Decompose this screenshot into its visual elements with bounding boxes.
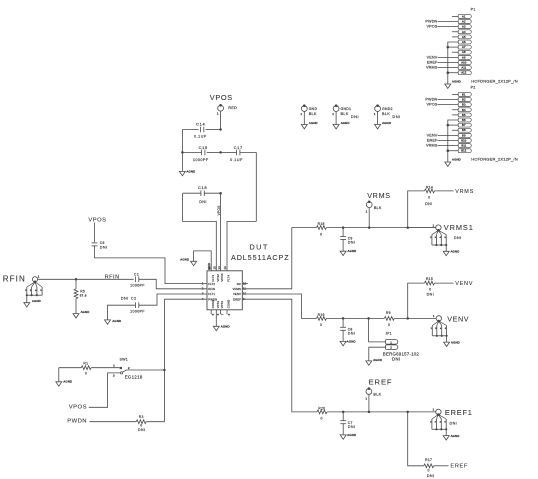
wire C17 loop to chip pin 13 — [227, 221, 256, 270]
node junction VRMS branch — [406, 226, 409, 229]
svg-text:PWDN: PWDN — [67, 418, 87, 424]
svg-text:EREF1: EREF1 — [445, 408, 473, 417]
pin 13 FLT4 (top) — [223, 266, 230, 282]
svg-text:14: 14 — [217, 266, 221, 270]
svg-text:DNI: DNI — [138, 428, 146, 432]
svg-text:0: 0 — [320, 323, 322, 327]
node VPOS label (mid-left) — [88, 218, 106, 224]
test point GND1 (BLK) — [332, 104, 359, 124]
pin 15 VPS2 (top) — [213, 266, 220, 282]
ground AGND below C2 — [105, 319, 122, 324]
svg-text:R14: R14 — [426, 185, 433, 189]
node EREF net label (to header) — [450, 464, 468, 470]
svg-text:FLT4: FLT4 — [227, 275, 231, 282]
svg-text:VPOS: VPOS — [210, 93, 233, 102]
node RFIN label (input) — [3, 275, 26, 284]
wire stub pin B8 — [452, 129, 458, 131]
svg-text:DUT: DUT — [249, 243, 268, 252]
svg-text:AGND: AGND — [382, 121, 391, 125]
wire ground bus P1 — [447, 42, 459, 84]
svg-text:COM1: COM1 — [211, 299, 215, 308]
svg-text:AGND: AGND — [347, 339, 356, 343]
svg-text:VENV: VENV — [427, 133, 438, 137]
svg-text:P1: P1 — [471, 8, 476, 12]
pin 11 VRMS (right) — [233, 287, 247, 292]
wire VPOS label to C6 — [94, 223, 96, 243]
wire SW1 pin 3 to VPOS label — [89, 373, 121, 407]
svg-text:R20: R20 — [318, 406, 325, 410]
wire chip pin 11 VRMS up column — [242, 228, 316, 289]
svg-text:NC: NC — [237, 282, 241, 286]
wire stub pin B5 — [452, 114, 458, 116]
wire ground bus P2 — [447, 120, 459, 162]
wire VRMS branch up to R14 — [408, 191, 425, 228]
svg-text:AGND: AGND — [112, 319, 121, 323]
svg-text:B9: B9 — [462, 133, 466, 137]
svg-text:A7: A7 — [462, 45, 466, 49]
wire C14 left leg down to C15 node — [181, 130, 183, 153]
svg-text:A9: A9 — [462, 55, 466, 59]
ground AGND below GND1 — [333, 121, 349, 129]
svg-text:1: 1 — [433, 314, 435, 318]
svg-text:DNI: DNI — [392, 356, 401, 361]
svg-text:DNI: DNI — [348, 241, 356, 245]
svg-text:C2: C2 — [131, 297, 136, 301]
svg-text:BLK: BLK — [374, 206, 382, 210]
ground AGND below GND — [301, 121, 317, 129]
svg-text:13: 13 — [223, 266, 227, 270]
capacitor C1 1000PF — [130, 273, 145, 288]
svg-text:RFIN: RFIN — [208, 287, 215, 291]
svg-text:0: 0 — [429, 287, 431, 291]
wire C18 left loop to chip pin 15 — [183, 193, 217, 271]
svg-text:B6: B6 — [462, 118, 466, 122]
pin 14 VPOS (top) — [217, 266, 224, 282]
pin 10 VENV (right) — [233, 292, 247, 297]
svg-text:1: 1 — [390, 340, 392, 344]
svg-text:VRMS: VRMS — [455, 189, 474, 195]
node VPOS label (switch) — [69, 405, 87, 411]
svg-text:16: 16 — [207, 266, 211, 270]
svg-text:AGND: AGND — [81, 310, 90, 314]
svg-text:C15: C15 — [199, 145, 208, 150]
svg-text:8: 8 — [227, 313, 231, 315]
svg-text:A1: A1 — [462, 14, 466, 18]
test point GND2 (BLK) — [374, 104, 401, 124]
svg-text:1: 1 — [332, 112, 334, 116]
svg-text:AGND: AGND — [347, 433, 356, 437]
svg-text:0: 0 — [320, 232, 322, 236]
resistor R5 57.6 — [74, 279, 87, 313]
wire C6 to chip pin 1 FLT2 — [95, 246, 208, 284]
svg-text:3: 3 — [113, 374, 115, 378]
resistor R1 0 — [59, 361, 120, 375]
svg-text:A10: A10 — [461, 60, 466, 64]
node junction EREF testpoint — [368, 411, 371, 414]
test point GND (BLK) — [300, 104, 317, 124]
svg-text:AGND: AGND — [187, 169, 196, 173]
wire SW1 pin 2 to PWDN column — [126, 369, 164, 371]
resistor R18 0 — [316, 222, 435, 236]
svg-text:B7: B7 — [462, 123, 466, 127]
svg-text:DNI: DNI — [427, 474, 435, 478]
svg-text:VENV: VENV — [233, 292, 241, 296]
connector EREF1 SMA — [430, 408, 459, 440]
svg-text:GND1: GND1 — [341, 107, 352, 111]
svg-text:AGND: AGND — [180, 257, 189, 261]
ground AGND below R5 — [73, 310, 89, 318]
svg-text:VRMS: VRMS — [233, 287, 242, 291]
svg-text:1: 1 — [366, 210, 368, 214]
node PWDN label (P1) — [425, 19, 458, 23]
wire C2 left to ground — [108, 305, 136, 320]
svg-text:JP1: JP1 — [385, 332, 391, 336]
svg-text:HCFDNGER_2X12P_/N: HCFDNGER_2X12P_/N — [471, 78, 518, 83]
svg-text:57.6: 57.6 — [80, 293, 87, 297]
test point VRMS (BLK) — [366, 200, 382, 227]
ground AGND below JP1 — [366, 358, 382, 365]
svg-text:VENV: VENV — [427, 55, 438, 59]
wire EREF branch down to R17 — [408, 412, 424, 466]
svg-text:R17: R17 — [425, 458, 432, 462]
node junction EREF branch — [406, 411, 409, 414]
footprint label P1 — [471, 78, 518, 83]
node PWDN label (P2) — [425, 97, 458, 101]
svg-text:B2: B2 — [462, 98, 466, 102]
svg-text:B8: B8 — [462, 128, 466, 132]
svg-text:DNI: DNI — [348, 332, 356, 336]
svg-text:EREF: EREF — [450, 464, 468, 470]
svg-text:AGND: AGND — [373, 358, 382, 362]
svg-text:B10: B10 — [461, 138, 466, 142]
capacitor C7 DNI (EREF) — [340, 412, 355, 435]
svg-text:DNI: DNI — [121, 296, 129, 301]
pin 4 PWDN (left) — [202, 297, 218, 302]
svg-text:1: 1 — [433, 408, 435, 412]
ground AGND below GND2 — [375, 121, 391, 129]
svg-text:RFIN: RFIN — [105, 274, 120, 280]
svg-text:1: 1 — [113, 364, 115, 368]
wire chip pin 10 VENV to row — [242, 294, 316, 318]
connector VRMS1 SMA — [408, 223, 462, 255]
svg-text:0: 0 — [388, 323, 390, 327]
svg-text:R3: R3 — [139, 415, 144, 419]
pin 5 COM1 (bottom) — [211, 299, 215, 315]
svg-text:1: 1 — [38, 275, 40, 279]
svg-text:BLK: BLK — [309, 112, 317, 116]
pin 12 NC (right) — [237, 281, 247, 286]
svg-text:1000PF: 1000PF — [193, 158, 209, 162]
svg-text:AGND: AGND — [32, 299, 41, 303]
capacitor C9 DNI (VRMS) — [340, 228, 355, 252]
svg-text:B4: B4 — [462, 108, 466, 112]
node PWDN label — [67, 418, 87, 424]
svg-text:HCFDNGER_2X12P_/N: HCFDNGER_2X12P_/N — [471, 156, 518, 161]
capacitor C15 1000PF — [182, 145, 220, 162]
svg-text:FLT3: FLT3 — [211, 275, 215, 282]
capacitor C18 DNI — [183, 185, 221, 204]
svg-text:VRMS: VRMS — [367, 191, 391, 200]
node junction C15 left — [181, 151, 184, 154]
footprint label P2 — [471, 156, 518, 161]
ground AGND below C7 — [340, 433, 356, 439]
wire stub pin A8 — [452, 51, 458, 53]
svg-text:DNI: DNI — [427, 293, 435, 297]
svg-text:PWDN: PWDN — [425, 19, 437, 23]
svg-text:EREF: EREF — [427, 138, 438, 142]
svg-text:A5: A5 — [462, 35, 466, 39]
svg-text:1000PF: 1000PF — [130, 309, 145, 313]
svg-text:A3: A3 — [462, 25, 466, 29]
svg-text:DNI: DNI — [199, 200, 207, 204]
wire VENV branch up to R15 — [408, 283, 425, 318]
node VRMS label (P1) — [426, 66, 458, 70]
svg-text:C1: C1 — [134, 273, 139, 277]
capacitor C17 0.1UF — [221, 145, 257, 162]
node junction VRMS testpoint — [368, 226, 371, 229]
svg-text:0: 0 — [427, 469, 429, 473]
svg-text:DNI: DNI — [425, 202, 433, 206]
svg-text:FLT1: FLT1 — [208, 292, 215, 296]
wire stub pin A5 — [452, 36, 458, 38]
ground AGND below C15 — [179, 152, 195, 175]
svg-text:1: 1 — [374, 112, 376, 116]
jumper JP1 BERG69157-102 DNI — [383, 332, 420, 362]
svg-text:ADL5511ACPZ: ADL5511ACPZ — [231, 253, 290, 262]
svg-text:AGND: AGND — [348, 249, 357, 253]
svg-text:1: 1 — [217, 111, 219, 115]
node VRMS label (testpoint) — [367, 191, 391, 200]
switch SW1 EG1218 — [113, 358, 143, 380]
svg-text:BLK: BLK — [341, 112, 349, 116]
svg-text:AGND: AGND — [452, 79, 461, 83]
wire C1 to chip pin 2 RFIN — [139, 279, 207, 289]
svg-text:GND: GND — [309, 107, 318, 111]
connector P2 header — [458, 86, 475, 153]
svg-text:BERG69157-102: BERG69157-102 — [383, 352, 420, 357]
pin 16 FLT3 (top) — [207, 266, 214, 282]
node VRMS label (P2) — [426, 144, 458, 148]
svg-text:0: 0 — [428, 195, 430, 199]
svg-text:R18: R18 — [318, 222, 325, 226]
capacitor C14 0.1UF — [182, 122, 220, 139]
svg-text:C17: C17 — [234, 145, 243, 150]
wire chip pin 4 PWDN down column — [164, 299, 207, 422]
wire JP1 pin 2 to ground — [369, 347, 386, 361]
capacitor C6 DNI — [92, 241, 108, 249]
svg-text:RFIN: RFIN — [3, 275, 26, 284]
test point VPOS (RED) — [217, 104, 237, 115]
svg-text:R9: R9 — [386, 311, 391, 315]
svg-text:A6: A6 — [462, 40, 466, 44]
pin 8 COM2 (bottom) — [227, 299, 231, 315]
connector VENV SMA — [431, 314, 460, 346]
svg-text:VPOS: VPOS — [426, 25, 437, 29]
svg-text:VRMS1: VRMS1 — [444, 223, 474, 232]
node junction C8 / VENV row — [342, 317, 345, 320]
svg-text:DNI: DNI — [450, 421, 458, 425]
svg-text:AGND: AGND — [452, 157, 461, 161]
connector RFIN SMA J1 — [24, 275, 43, 308]
svg-text:B1: B1 — [462, 92, 466, 96]
svg-text:RED: RED — [228, 106, 237, 110]
svg-text:DNI: DNI — [392, 114, 400, 119]
svg-text:A12: A12 — [461, 71, 466, 75]
svg-text:A8: A8 — [462, 50, 466, 54]
node junction C14/VPOS — [219, 128, 222, 131]
svg-text:DNI: DNI — [454, 236, 462, 240]
svg-text:GND2: GND2 — [382, 107, 393, 111]
wire C2 to chip pin 3 FLT1 — [139, 294, 207, 305]
wire stub pin A1 — [452, 15, 458, 17]
ground AGND below C9 — [340, 249, 356, 255]
svg-text:5: 5 — [211, 313, 215, 315]
svg-text:AGND: AGND — [451, 434, 460, 438]
svg-text:1: 1 — [433, 223, 435, 227]
ground AGND below R1 — [56, 368, 72, 387]
wire stub pin A4 — [452, 31, 458, 33]
node EREF label (testpoint) — [369, 377, 393, 386]
capacitor C2 1000PF DNI — [121, 296, 146, 314]
node EREF label (P2) — [427, 138, 458, 142]
svg-text:B12: B12 — [461, 149, 466, 153]
node VRMS net label (to header) — [455, 189, 474, 195]
resistor R20 0 — [317, 406, 436, 420]
test point EREF (BLK) — [365, 387, 381, 412]
svg-text:EREF: EREF — [369, 377, 393, 386]
node junction VPOS line / C15 / C17 — [219, 151, 222, 154]
svg-text:COM2: COM2 — [227, 299, 231, 308]
wire stub pin B1 — [452, 93, 458, 95]
svg-text:C14: C14 — [196, 122, 205, 127]
ground AGND below C8 — [340, 339, 356, 345]
svg-text:BLK: BLK — [382, 112, 390, 116]
node junction C7 / EREF row — [342, 411, 345, 414]
resistor R15 0 DNI — [425, 277, 454, 297]
pin 7 VPS1 (bottom) — [220, 300, 224, 315]
resistor R19 0 — [316, 313, 384, 327]
svg-text:R1: R1 — [83, 361, 88, 365]
ground AGND below P2 — [445, 157, 461, 166]
wire chip pin 9 EREF down column — [242, 299, 317, 412]
wire VPOS net vertical to chip pin 14 — [217, 193, 221, 271]
svg-text:1000PF: 1000PF — [130, 283, 145, 287]
svg-text:DNI: DNI — [100, 245, 108, 249]
svg-text:SW1: SW1 — [120, 358, 129, 362]
svg-text:B5: B5 — [462, 113, 466, 117]
svg-text:1: 1 — [365, 396, 367, 400]
node VENV label (P1) — [427, 55, 459, 59]
svg-text:AGND: AGND — [451, 340, 460, 344]
node VRMS1 label — [444, 223, 474, 232]
svg-text:0.1UF: 0.1UF — [230, 158, 243, 162]
svg-text:DNI: DNI — [348, 425, 356, 429]
resistor R3 0 DNI — [136, 415, 164, 432]
svg-text:VPOS: VPOS — [69, 405, 87, 411]
svg-text:DNI: DNI — [351, 114, 359, 119]
pin 2 RFIN (left) — [202, 287, 216, 292]
wire stub pin B4 — [452, 109, 458, 111]
wire C17 right leg down — [255, 152, 257, 221]
ground AGND to chip pin 16 — [180, 251, 211, 271]
svg-text:VENV: VENV — [447, 314, 469, 323]
svg-text:R19: R19 — [318, 313, 325, 317]
node EREF label (P1) — [427, 60, 458, 64]
svg-text:A2: A2 — [462, 20, 466, 24]
node VPOS label (top) — [210, 93, 233, 102]
svg-text:A11: A11 — [461, 66, 466, 70]
wire PWDN label to R3 — [90, 421, 137, 423]
wire VPOS testpoint to C14 node — [220, 111, 222, 129]
svg-text:C18: C18 — [198, 185, 207, 190]
svg-text:AGND: AGND — [221, 325, 230, 329]
node junction C18 / VPOS line — [219, 192, 222, 195]
pin 1 FLT2 (left) — [202, 281, 216, 286]
node VENV label (P2) — [427, 133, 459, 137]
node junction PWDN / SW1 — [163, 369, 166, 372]
svg-text:R15: R15 — [426, 277, 433, 281]
node VPOS label (P2) — [426, 103, 458, 107]
svg-text:EG1218: EG1218 — [125, 374, 143, 379]
svg-text:P2: P2 — [471, 86, 476, 90]
svg-text:B11: B11 — [461, 144, 466, 148]
svg-text:1: 1 — [300, 112, 302, 116]
op-amp U1 DUT ADL5511ACPZ body — [207, 243, 290, 310]
svg-text:VPOS: VPOS — [426, 103, 437, 107]
svg-text:VPOS: VPOS — [220, 273, 224, 281]
capacitor C8 DNI (VENV) — [340, 318, 355, 341]
node VENV net label (to header) — [455, 281, 473, 287]
node junction RFIN / R5 — [75, 278, 78, 281]
resistor R14 0 DNI — [425, 185, 454, 205]
svg-text:VPS1: VPS1 — [220, 300, 224, 308]
svg-text:B3: B3 — [462, 103, 466, 107]
ground AGND below P1 — [445, 79, 461, 88]
svg-text:VENV: VENV — [455, 281, 473, 287]
wire RFIN node to C1 — [76, 274, 134, 280]
svg-text:0: 0 — [321, 417, 323, 421]
wire RFIN to R5 node — [38, 278, 76, 280]
pin 3 FLT1 (left) — [202, 292, 216, 297]
svg-text:AGND: AGND — [309, 121, 318, 125]
svg-text:VRMS: VRMS — [426, 66, 438, 70]
svg-text:VPOS: VPOS — [88, 218, 106, 224]
connector P1 header — [458, 8, 475, 75]
svg-text:AGND: AGND — [341, 121, 350, 125]
resistor R17 0 DNI — [424, 458, 449, 478]
svg-text:VPOS: VPOS — [217, 205, 221, 216]
pin 12 NC stub — [242, 283, 248, 285]
node VPOS label (P1) — [426, 25, 458, 29]
node junction VENV branch — [406, 317, 409, 320]
svg-text:A4: A4 — [462, 30, 466, 34]
svg-text:PWDN: PWDN — [425, 97, 437, 101]
ground AGND below DUT — [213, 314, 229, 331]
svg-text:EREF: EREF — [233, 297, 241, 301]
svg-text:AGND: AGND — [63, 379, 72, 383]
wire JP1 pin 1 to VENV row — [369, 318, 386, 342]
svg-text:VRMS: VRMS — [426, 144, 438, 148]
svg-text:0.1UF: 0.1UF — [194, 135, 207, 139]
node junction JP1 branch — [367, 317, 370, 320]
node EREF1 label — [445, 408, 473, 417]
node junction C9 / VRMS row — [342, 226, 345, 229]
svg-text:EREF: EREF — [427, 60, 438, 64]
node VENV label (SMA) — [447, 314, 469, 323]
svg-text:0: 0 — [85, 372, 87, 376]
svg-text:BLK: BLK — [373, 393, 381, 397]
svg-text:AGND: AGND — [451, 250, 460, 254]
